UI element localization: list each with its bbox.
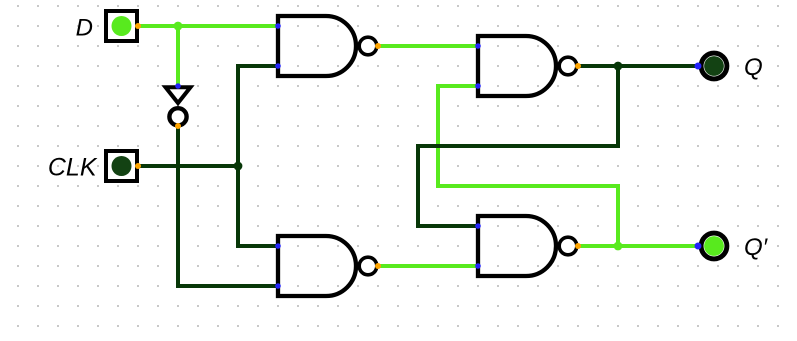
svg-text:D: D — [76, 15, 93, 42]
svg-text:Q′: Q′ — [744, 234, 769, 261]
svg-text:CLK: CLK — [48, 154, 98, 182]
svg-text:Q: Q — [744, 54, 763, 81]
